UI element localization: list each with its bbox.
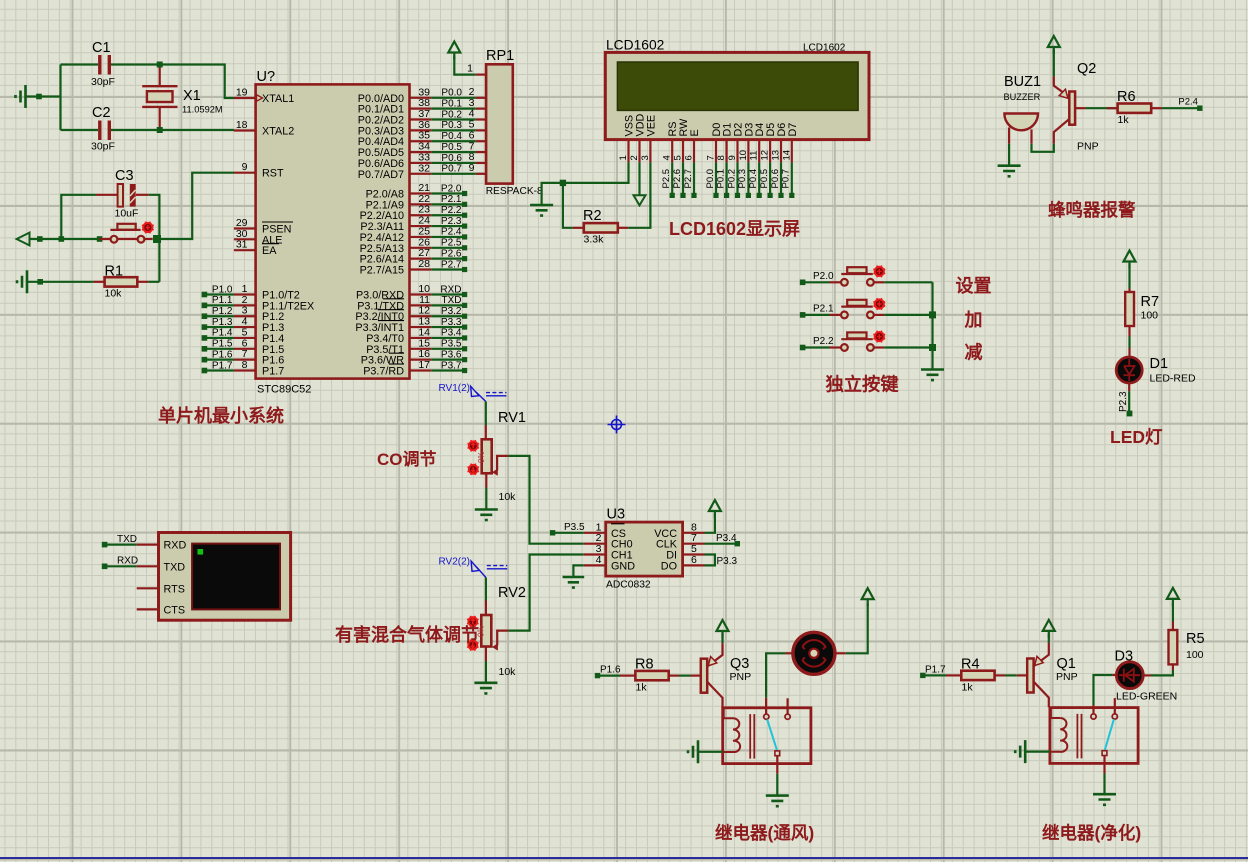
- wire RXD terminal: [102, 556, 138, 569]
- svg-text:28: 28: [418, 258, 430, 270]
- power arrow (RP1 pin1): [448, 42, 460, 60]
- power arrow (U3 VCC): [709, 500, 721, 518]
- svg-text:Q2: Q2: [1077, 61, 1096, 77]
- svg-text:P1.6: P1.6: [212, 349, 233, 360]
- power arrow (Q1 emitter): [1043, 620, 1055, 638]
- power arrow (Q3 emitter): [717, 620, 729, 638]
- svg-text:8: 8: [242, 359, 248, 371]
- transistor Q2 PNP: [1054, 61, 1099, 153]
- svg-text:13: 13: [771, 150, 782, 161]
- power arrow (R7): [1124, 251, 1136, 269]
- svg-text:X1: X1: [183, 88, 201, 104]
- ground (relay coil): [688, 740, 723, 763]
- svg-text:D3: D3: [1115, 649, 1134, 665]
- svg-text:14: 14: [781, 150, 792, 161]
- svg-text:P2.3: P2.3: [441, 216, 462, 227]
- svg-text:P2.4: P2.4: [441, 227, 462, 238]
- LED D3 LED-GREEN: [1115, 649, 1178, 703]
- svg-text:P1.2: P1.2: [212, 306, 233, 317]
- svg-text:R7: R7: [1141, 294, 1160, 310]
- wire RV1 wiper to U3 CH0: [508, 456, 583, 544]
- svg-text:6: 6: [691, 554, 697, 566]
- svg-text:P2.2: P2.2: [441, 205, 462, 216]
- ground (relay switch purify): [1093, 794, 1116, 805]
- wire motor to power: [836, 604, 868, 654]
- sheet border line (bottom): [0, 857, 1248, 859]
- voltage probe RV1(2): [439, 383, 507, 402]
- wire reset net down to R1: [158, 242, 160, 282]
- wire TXD terminal: [102, 534, 137, 547]
- svg-text:100: 100: [1141, 310, 1159, 322]
- wire U3 GND to ground: [573, 565, 583, 577]
- svg-text:P1.7: P1.7: [925, 664, 946, 675]
- crystal X1: [142, 65, 222, 131]
- svg-text:P1.3: P1.3: [212, 317, 233, 328]
- svg-text:ADC0832: ADC0832: [606, 580, 651, 591]
- svg-text:C3: C3: [115, 168, 134, 184]
- svg-text:P1.6: P1.6: [600, 665, 621, 676]
- wire Q2 emitter power: [1053, 50, 1055, 77]
- svg-text:P0.6: P0.6: [441, 153, 462, 164]
- svg-text:P0.7/AD7: P0.7/AD7: [358, 169, 404, 181]
- actuator up arrow (RV1): [468, 440, 479, 451]
- ground (buttons): [921, 370, 944, 381]
- ADC U3 ADC0832: [584, 507, 705, 591]
- svg-text:蜂鸣器报警: 蜂鸣器报警: [1048, 200, 1136, 220]
- svg-text:0%: 0%: [477, 451, 486, 463]
- relay (purify) box: [1050, 708, 1138, 764]
- svg-text:P3.4: P3.4: [716, 533, 737, 544]
- wire RP1 pin1: [454, 56, 475, 75]
- wire R8 to Q3 base: [679, 674, 701, 676]
- capacitor C1: [61, 40, 160, 88]
- label LED灯: [1110, 427, 1163, 447]
- svg-text:P0.3: P0.3: [737, 169, 748, 189]
- svg-text:9: 9: [242, 161, 248, 173]
- svg-text:P3.6: P3.6: [441, 349, 462, 360]
- svg-text:Q3: Q3: [730, 656, 749, 672]
- svg-text:P0.2: P0.2: [441, 109, 462, 120]
- resistor R7: [1125, 292, 1159, 337]
- label 蜂鸣器报警: [1048, 200, 1136, 220]
- wire Q3 emitter power: [721, 634, 723, 644]
- power arrow (Q2 emitter): [1048, 36, 1060, 54]
- svg-text:RTS: RTS: [164, 583, 185, 595]
- svg-text:31: 31: [236, 239, 248, 251]
- svg-text:EA: EA: [262, 245, 277, 257]
- svg-text:4: 4: [596, 554, 602, 566]
- wire buttons common vertical: [929, 282, 936, 369]
- svg-text:12: 12: [760, 150, 771, 161]
- svg-text:P3.5: P3.5: [441, 339, 462, 350]
- ground (buzzer): [998, 166, 1021, 177]
- transistor Q3 PNP: [701, 643, 751, 707]
- svg-text:1k: 1k: [1118, 114, 1130, 126]
- wire C3 right vertical: [149, 195, 160, 236]
- wire RV1 bottom to ground: [485, 488, 487, 510]
- ground (LCD VSS): [530, 205, 553, 216]
- wire D1 to P2.3 terminal: [1118, 391, 1132, 416]
- wire power to R7: [1128, 264, 1130, 293]
- svg-text:P1.4: P1.4: [212, 328, 233, 339]
- wire XTAL1 net: [160, 65, 234, 99]
- svg-text:U?: U?: [257, 69, 276, 85]
- svg-text:RV1(2): RV1(2): [439, 383, 471, 394]
- wire R6 to P2.4 terminal: [1162, 97, 1202, 111]
- actuator star (P2.0 button): [873, 266, 885, 278]
- svg-text:P2.0: P2.0: [813, 271, 834, 282]
- wire P2.1 button to common: [884, 314, 932, 316]
- wire D3 to R5: [1141, 664, 1173, 675]
- buzzer BUZ1: [1004, 74, 1042, 144]
- svg-text:P0.4: P0.4: [441, 131, 462, 142]
- svg-text:P2.7/A15: P2.7/A15: [360, 265, 404, 277]
- label LCD1602显示屏: [669, 219, 800, 239]
- svg-text:P3.4: P3.4: [441, 328, 462, 339]
- wire R2 to LCD VEE: [628, 162, 650, 227]
- svg-text:RV2: RV2: [498, 585, 526, 601]
- svg-text:D1: D1: [1150, 356, 1169, 372]
- svg-text:1k: 1k: [636, 682, 648, 694]
- svg-text:C1: C1: [92, 40, 111, 56]
- push button (P2.1): [800, 300, 884, 319]
- svg-text:R5: R5: [1186, 631, 1205, 647]
- wire relay common to motor: [766, 653, 792, 714]
- ground (relay switch): [766, 796, 789, 807]
- svg-text:继电器(通风): 继电器(通风): [715, 823, 814, 843]
- push button (P2.0): [800, 267, 884, 285]
- svg-text:3: 3: [640, 155, 651, 160]
- svg-text:PNP: PNP: [1077, 141, 1099, 153]
- svg-text:P0.7: P0.7: [781, 169, 792, 189]
- svg-text:TXD: TXD: [164, 561, 186, 573]
- svg-text:P3.7: P3.7: [441, 360, 462, 371]
- wire RV2 wiper to U3 CH1: [508, 555, 583, 631]
- svg-text:10k: 10k: [499, 491, 517, 503]
- svg-text:继电器(净化): 继电器(净化): [1042, 823, 1141, 843]
- actuator down arrow (RV2): [467, 639, 478, 650]
- svg-text:LCD1602: LCD1602: [803, 43, 846, 54]
- svg-text:U3: U3: [607, 507, 626, 523]
- svg-text:RST: RST: [262, 168, 284, 180]
- relay NC contact (purify): [1112, 698, 1117, 719]
- svg-text:BUZZER: BUZZER: [1004, 92, 1041, 102]
- LCD1602 display: [605, 38, 869, 163]
- motor (fan): [793, 632, 835, 674]
- svg-text:Q1: Q1: [1057, 656, 1076, 672]
- svg-text:LED-GREEN: LED-GREEN: [1116, 691, 1177, 703]
- svg-text:E: E: [689, 129, 701, 136]
- relay coil: [724, 708, 740, 752]
- wire R5 to power: [1172, 603, 1174, 622]
- svg-text:1: 1: [618, 155, 629, 160]
- relay common contact (purify): [1091, 714, 1096, 719]
- voltage probe RV2(2): [439, 557, 508, 578]
- junction node at C1 right: [157, 62, 163, 68]
- wire Q1 emitter power: [1048, 633, 1050, 643]
- relay switch blade (purify): [1105, 719, 1114, 751]
- wire P2.2 button to common: [884, 346, 932, 348]
- transistor Q1 PNP: [1027, 643, 1077, 707]
- svg-text:P0.4: P0.4: [748, 169, 759, 189]
- svg-text:P1.7: P1.7: [262, 366, 284, 378]
- svg-text:P1.5: P1.5: [212, 339, 233, 350]
- wire U3 CLK to P3.4 terminal: [705, 533, 741, 546]
- ground (U3): [563, 577, 585, 588]
- wire RV2 bottom to ground: [485, 661, 487, 683]
- label 独立按键: [826, 374, 900, 395]
- wire R4 to Q1 base: [1005, 674, 1027, 676]
- junction node VSS/R2: [560, 180, 566, 186]
- svg-text:XTAL2: XTAL2: [262, 126, 294, 138]
- svg-text:R8: R8: [635, 657, 654, 673]
- svg-text:R4: R4: [961, 656, 980, 672]
- svg-text:TXD: TXD: [442, 295, 462, 306]
- svg-text:LED灯: LED灯: [1110, 427, 1163, 447]
- svg-text:BUZ1: BUZ1: [1004, 74, 1041, 90]
- wire relay switch to ground (purify): [1103, 756, 1105, 795]
- svg-text:加: 加: [964, 310, 983, 330]
- wire reset net to RST pin: [161, 173, 234, 239]
- label 设置: [956, 276, 992, 296]
- svg-text:P0.0: P0.0: [441, 88, 462, 99]
- wire buzzer left to ground: [1008, 144, 1010, 166]
- svg-text:10k: 10k: [499, 666, 517, 678]
- svg-text:P1.7: P1.7: [212, 360, 233, 371]
- svg-text:R2: R2: [583, 208, 602, 224]
- capacitor C3: [96, 168, 149, 220]
- P1.0-P1.7 terminal wires: [202, 284, 234, 373]
- actuator star (reset button): [142, 222, 154, 234]
- svg-text:P2.6: P2.6: [441, 248, 462, 259]
- wire P2.0 button to common: [884, 281, 932, 283]
- svg-text:P1.1: P1.1: [212, 295, 233, 306]
- relay blade end square: [775, 751, 780, 756]
- svg-text:独立按键: 独立按键: [826, 374, 900, 395]
- svg-text:LED-RED: LED-RED: [1150, 373, 1197, 385]
- resistor pack RP1 RESPACK-8: [467, 48, 543, 197]
- push button (P2.2): [800, 332, 884, 351]
- svg-text:9: 9: [727, 155, 738, 160]
- svg-text:P3.3: P3.3: [441, 317, 462, 328]
- microcontroller U? STC89C52: [234, 69, 431, 396]
- svg-text:7: 7: [706, 155, 717, 160]
- svg-text:10uF: 10uF: [115, 208, 139, 220]
- wire U3 VCC power: [705, 514, 715, 533]
- svg-text:32: 32: [418, 162, 430, 174]
- svg-text:GND: GND: [611, 560, 635, 572]
- svg-text:P0.2: P0.2: [726, 169, 737, 189]
- svg-text:LCD1602: LCD1602: [606, 38, 664, 53]
- label CO调节: [377, 449, 437, 469]
- resistor R4: [946, 656, 1005, 693]
- svg-text:P2.6: P2.6: [672, 169, 683, 189]
- svg-text:30pF: 30pF: [91, 141, 115, 153]
- svg-text:R6: R6: [1117, 89, 1136, 105]
- svg-text:19: 19: [236, 87, 248, 99]
- svg-text:6: 6: [684, 155, 695, 160]
- svg-text:P0.6: P0.6: [770, 169, 781, 189]
- svg-text:XTAL1: XTAL1: [262, 93, 294, 105]
- label 加: [964, 310, 983, 330]
- svg-text:18: 18: [236, 119, 248, 131]
- wire P3.5 terminal to U3 CS: [550, 522, 585, 536]
- push button (reset): [100, 224, 153, 243]
- svg-text:4: 4: [662, 155, 673, 160]
- svg-text:有害混合气体调节: 有害混合气体调节: [335, 624, 479, 645]
- actuator star (P2.1 button): [873, 298, 885, 310]
- label 继电器(通风): [715, 823, 814, 843]
- wire C1/C2 left vertical: [59, 65, 61, 131]
- svg-text:DO: DO: [661, 560, 677, 572]
- wire junction to R2: [563, 183, 573, 228]
- power arrow (motor): [862, 588, 874, 606]
- relay core: [750, 714, 754, 759]
- P3 terminal wires: [431, 284, 467, 373]
- svg-text:RP1: RP1: [486, 48, 514, 64]
- svg-text:VEE: VEE: [645, 115, 657, 137]
- capacitor C2: [61, 105, 160, 153]
- svg-text:TXD: TXD: [117, 534, 137, 545]
- svg-text:PNP: PNP: [1056, 671, 1078, 683]
- wire XTAL2 net: [160, 129, 234, 131]
- svg-text:P2.5: P2.5: [441, 238, 462, 249]
- resistor R1: [94, 264, 149, 300]
- ground (left of R1): [17, 270, 94, 293]
- svg-text:1k: 1k: [962, 681, 974, 693]
- svg-text:1: 1: [467, 63, 473, 75]
- svg-text:P1.0: P1.0: [212, 284, 233, 295]
- ground (left of C1/C2): [16, 85, 61, 108]
- label 继电器(净化): [1042, 823, 1141, 843]
- wire R7 to D1: [1128, 337, 1130, 358]
- svg-text:5: 5: [673, 155, 684, 160]
- actuator star (P2.2 button): [873, 331, 885, 343]
- svg-text:单片机最小系统: 单片机最小系统: [158, 405, 284, 426]
- virtual terminal (serial monitor): [137, 533, 291, 621]
- svg-text:2: 2: [629, 155, 640, 160]
- svg-text:P0.7: P0.7: [441, 164, 462, 175]
- relay core (purify): [1077, 714, 1081, 759]
- svg-text:P3.7/RD: P3.7/RD: [363, 366, 404, 378]
- LCD data terminal wires: [661, 162, 794, 198]
- relay switch blade (cyan): [767, 719, 777, 751]
- svg-text:减: 减: [965, 341, 983, 362]
- wire R1 right: [148, 281, 159, 283]
- svg-text:RV1: RV1: [498, 410, 526, 426]
- svg-text:RV2(2): RV2(2): [439, 557, 471, 568]
- svg-text:RXD: RXD: [440, 284, 461, 295]
- svg-text:P2.5: P2.5: [661, 169, 672, 189]
- wire LCD VSS to ground: [542, 162, 629, 205]
- power terminal arrow (reset row left): [17, 233, 103, 246]
- relay common contact: [764, 714, 769, 719]
- svg-text:3.3k: 3.3k: [584, 234, 605, 246]
- ground (RV2): [474, 683, 497, 694]
- svg-text:P0.0: P0.0: [705, 169, 716, 189]
- svg-text:P2.7: P2.7: [683, 169, 694, 189]
- wire C3 left to reset row: [61, 195, 96, 239]
- actuator up arrow (RV2): [467, 616, 478, 627]
- relay NC contact: [785, 698, 790, 719]
- relay (fan) box: [723, 708, 811, 764]
- junction node (reset net): [153, 235, 161, 243]
- ground (relay coil purify): [1015, 740, 1050, 763]
- svg-text:P3.2: P3.2: [441, 306, 462, 317]
- resistor R8: [620, 657, 679, 694]
- svg-text:STC89C52: STC89C52: [257, 384, 311, 396]
- svg-text:P2.7: P2.7: [441, 259, 462, 270]
- svg-text:RXD: RXD: [117, 556, 138, 567]
- actuator down arrow (RV1): [468, 464, 479, 475]
- potentiometer RV2: [477, 578, 526, 679]
- svg-text:RESPACK-8: RESPACK-8: [486, 186, 543, 197]
- svg-text:11: 11: [749, 151, 760, 161]
- svg-text:R1: R1: [105, 264, 124, 280]
- power arrow (R5): [1167, 588, 1179, 606]
- svg-text:CTS: CTS: [164, 604, 186, 616]
- svg-text:C2: C2: [92, 105, 111, 121]
- svg-text:CO调节: CO调节: [377, 449, 437, 469]
- svg-text:10: 10: [738, 150, 749, 161]
- svg-text:100: 100: [1186, 649, 1204, 661]
- P0 bus wires chip to RP1: [431, 88, 476, 175]
- label 单片机最小系统: [158, 405, 284, 426]
- svg-text:P2.3: P2.3: [1118, 391, 1129, 412]
- relay coil (purify): [1051, 708, 1067, 752]
- svg-text:P2.1: P2.1: [813, 304, 834, 315]
- svg-text:P2.1: P2.1: [441, 194, 462, 205]
- wire relay switch to ground: [776, 756, 778, 796]
- resistor R5: [1169, 622, 1205, 665]
- svg-text:LCD1602显示屏: LCD1602显示屏: [669, 219, 800, 239]
- junction node at C2 right: [157, 127, 163, 133]
- svg-text:P0.5: P0.5: [441, 142, 462, 153]
- svg-text:D7: D7: [787, 123, 799, 137]
- label 减: [965, 341, 983, 362]
- svg-text:RXD: RXD: [164, 540, 187, 552]
- label 有害混合气体调节: [335, 624, 479, 645]
- svg-text:P2.0: P2.0: [441, 183, 462, 194]
- svg-text:P3.3: P3.3: [717, 556, 738, 567]
- potentiometer RV1: [477, 402, 526, 504]
- svg-text:30pF: 30pF: [91, 76, 115, 88]
- origin marker crosshair: [608, 416, 626, 434]
- svg-text:P0.1: P0.1: [441, 98, 462, 109]
- svg-text:8: 8: [716, 155, 727, 160]
- resistor R2: [573, 208, 628, 246]
- svg-text:11.0592M: 11.0592M: [182, 105, 223, 115]
- wire relay common to D3: [1094, 675, 1118, 714]
- power down arrow (LCD VDD): [634, 162, 646, 205]
- P2.0-P2.7 terminal wires: [431, 183, 467, 272]
- wire U3 DI/DO to P3.3: [705, 555, 738, 568]
- ground (RV1): [475, 510, 498, 521]
- svg-text:P0.5: P0.5: [759, 169, 770, 189]
- svg-text:P3.5: P3.5: [564, 522, 585, 533]
- svg-text:P0.1: P0.1: [715, 169, 726, 189]
- relay blade end square (purify): [1102, 751, 1107, 756]
- wire buzzer to Q2 collector: [1032, 144, 1054, 152]
- svg-text:P0.3: P0.3: [441, 120, 462, 131]
- wire P1.6 terminal to R8: [595, 665, 621, 679]
- svg-text:设置: 设置: [956, 276, 992, 296]
- svg-text:17: 17: [418, 359, 430, 371]
- svg-text:10k: 10k: [105, 288, 123, 300]
- svg-text:P2.4: P2.4: [1178, 97, 1198, 108]
- svg-text:P2.2: P2.2: [813, 336, 834, 347]
- LED D1 LED-RED: [1116, 356, 1196, 391]
